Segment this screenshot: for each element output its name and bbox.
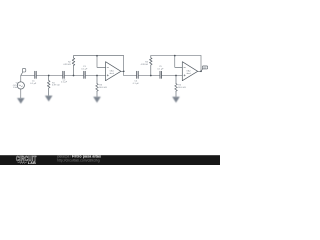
wire C3 to op-amp — [86, 75, 106, 77]
resistor R2 — [72, 56, 75, 76]
wire feedback rail stage 1 — [74, 55, 124, 57]
node junction R2 — [73, 75, 75, 77]
CircuitLab logo wordmark — [16, 155, 37, 165]
ground for R5 — [172, 97, 180, 103]
R3 value label — [99, 85, 107, 89]
C1 value label — [30, 81, 37, 85]
V1 value label — [13, 83, 20, 89]
svg-text:ideal: ideal — [186, 73, 191, 75]
resistor R5 — [175, 76, 178, 97]
resistor R4 — [150, 56, 153, 76]
resistor R1 — [47, 76, 50, 96]
watermark bar — [0, 155, 220, 165]
wire inverting input stage 1 — [97, 56, 106, 68]
svg-text:0.1 μF: 0.1 μF — [157, 68, 164, 70]
node junction R3 — [96, 75, 98, 77]
capacitor C2 — [63, 71, 64, 78]
resistor R3 — [96, 76, 99, 97]
OA2 label — [186, 70, 191, 75]
svg-text:LAB: LAB — [28, 161, 36, 165]
wire feedback drop stage 1 — [123, 56, 125, 76]
svg-text:1 kHz: 1 kHz — [13, 87, 18, 89]
svg-text:80.6 kΩ: 80.6 kΩ — [178, 87, 186, 89]
svg-text:0.1 μF: 0.1 μF — [30, 83, 37, 85]
capacitor C3 — [84, 71, 85, 78]
wire C2 to C3 — [65, 75, 83, 77]
OA1 label — [110, 70, 115, 75]
wire input top — [21, 75, 34, 77]
wire feedback drop stage 2 — [200, 56, 202, 72]
node rail junction stage 1 — [96, 55, 98, 57]
node rail junction stage 2 — [174, 55, 176, 57]
wire stage1 out to C4 — [124, 75, 137, 77]
node junction R5 — [175, 75, 177, 77]
ground for V1 — [17, 98, 25, 104]
svg-text:0.1 μF: 0.1 μF — [133, 83, 140, 85]
svg-text:4.99 kΩ: 4.99 kΩ — [63, 64, 71, 66]
wire C1 to C2 — [37, 75, 62, 77]
C2 value label — [61, 79, 68, 83]
C4 value label — [133, 81, 140, 85]
node junction R4 — [150, 75, 152, 77]
capacitor C1 — [35, 71, 36, 78]
wire op-amp2 output — [198, 70, 201, 72]
ground for R1 — [45, 96, 53, 102]
node IN flag — [21, 69, 26, 76]
svg-text:0.1 μF: 0.1 μF — [61, 82, 68, 84]
node output junction stage 1 — [123, 70, 125, 72]
op-amp OA1 — [106, 62, 121, 81]
svg-text:80.6 kΩ: 80.6 kΩ — [99, 87, 107, 89]
capacitor C5 — [160, 71, 161, 78]
svg-text:http://circuitlab.com/c8tk3hg: http://circuitlab.com/c8tk3hg — [57, 158, 100, 162]
node OUT flag — [201, 66, 208, 71]
svg-text:0.1 μF: 0.1 μF — [81, 68, 88, 70]
capacitor C4 — [137, 71, 139, 78]
R5 value label — [178, 85, 186, 89]
op-amp OA2 — [182, 62, 197, 81]
logo resistor zigzag — [18, 162, 27, 164]
wire C5 to op-amp2 — [162, 75, 182, 77]
voltage source V1 — [17, 76, 24, 98]
wire op-amp1 output — [121, 70, 124, 72]
wire inverting input stage 2 — [175, 56, 183, 68]
R2 value label — [63, 62, 71, 66]
C3 value label — [81, 66, 88, 70]
wire feedback rail stage 2 — [151, 55, 201, 57]
svg-text:ideal: ideal — [110, 73, 115, 75]
wire C4 to C5 — [139, 75, 160, 77]
C5 value label — [157, 66, 164, 70]
R1 value label — [52, 82, 60, 86]
ground for R3 — [93, 97, 101, 103]
node junction R1 — [48, 75, 50, 77]
svg-text:4.87 kΩ: 4.87 kΩ — [52, 85, 60, 87]
svg-text:4.99 kΩ: 4.99 kΩ — [141, 64, 149, 66]
R4 value label — [141, 62, 149, 66]
node output junction stage 2 — [200, 70, 202, 72]
